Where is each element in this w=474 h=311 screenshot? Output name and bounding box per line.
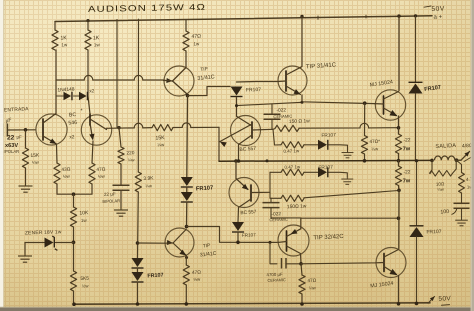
scan edge right strip <box>472 0 474 311</box>
svg-text:FR107: FR107 <box>147 272 164 279</box>
resistor 0.47 1w (row2) <box>270 171 281 173</box>
svg-text:CERAMIC: CERAMIC <box>267 277 286 283</box>
svg-text:TIP: TIP <box>200 66 208 73</box>
svg-text:CERAMIC: CERAMIC <box>269 217 288 223</box>
capacitor .022 ceramic (lower) <box>270 198 272 202</box>
resistor 1K 1w (left collector load) <box>54 22 56 31</box>
capacitor 22uF bipolar (feedback) <box>120 164 122 185</box>
ground (row2) <box>329 172 348 176</box>
svg-text:150Ω 1w: 150Ω 1w <box>287 204 307 211</box>
wire Q1 collector to VAS base (with hops) <box>56 75 164 80</box>
svg-text:22: 22 <box>7 135 15 142</box>
svg-text:¼w: ¼w <box>437 187 444 192</box>
wire Q2 collector <box>88 50 90 114</box>
svg-text:TIP: TIP <box>203 243 211 250</box>
diode FR107 (upper rail clamp) <box>414 14 417 17</box>
svg-text:BIPOLAR: BIPOLAR <box>102 198 120 204</box>
svg-text:x2: x2 <box>89 88 95 93</box>
svg-text:47Ω: 47Ω <box>307 278 316 283</box>
svg-text:½w: ½w <box>63 174 71 179</box>
svg-text:1w: 1w <box>193 41 200 46</box>
transistor BC557 (lower bias) <box>235 161 237 179</box>
svg-text:BC: BC <box>69 112 77 119</box>
ground (feedback) <box>120 191 122 207</box>
svg-text:CERAMIC: CERAMIC <box>273 114 292 120</box>
node feedback junction <box>117 126 120 129</box>
resistor 15K 1/4w (feedback) <box>152 125 173 131</box>
diode FR107 d (driver chain) <box>186 187 188 192</box>
svg-text:a +: a + <box>433 13 442 20</box>
svg-text:0.47 1w: 0.47 1w <box>284 164 301 170</box>
svg-text:50V: 50V <box>438 295 451 302</box>
scan edge left white strip <box>0 0 3 311</box>
node input bias junction <box>24 128 28 132</box>
svg-text:BC 557: BC 557 <box>240 209 257 216</box>
svg-text:0.47 1w: 0.47 1w <box>283 148 300 154</box>
resistor 3.9K 1/4w (bias chain) <box>135 172 141 192</box>
wire VAS collector to 47ohm <box>185 51 187 68</box>
svg-text:-22: -22 <box>403 169 411 175</box>
node lower driver emitter <box>185 256 188 259</box>
transistor TIP31/41C (lower driver) <box>165 228 194 257</box>
svg-text:1w: 1w <box>61 42 68 47</box>
wire Q1 collector <box>55 50 57 114</box>
svg-text:100: 100 <box>440 209 449 216</box>
diode FR107 (row2) <box>304 171 318 173</box>
svg-text:AUDISON 175W 4Ω: AUDISON 175W 4Ω <box>88 2 206 14</box>
resistor 150ohm 1w (row2 to MJ lower) <box>270 192 281 198</box>
resistor .22 7w (lower MJ) <box>398 161 400 166</box>
transistor MJ15024 (upper output) <box>397 14 400 17</box>
node zener junction <box>73 227 75 271</box>
scan edge bottom strip <box>0 308 474 311</box>
ground (zener) <box>24 243 26 254</box>
resistor 47ohm 1w (VAS collector load) <box>185 20 187 31</box>
svg-text:1w: 1w <box>94 42 101 47</box>
diode FR107 c (driver chain) <box>181 177 193 186</box>
diode 1N4148 b <box>74 95 80 97</box>
wire feedback to output line <box>173 123 219 128</box>
svg-text:47Ω: 47Ω <box>96 167 106 173</box>
svg-text:150 Ω 1w: 150 Ω 1w <box>289 118 310 125</box>
wire bias chain down <box>137 192 140 258</box>
capacitor 22uF 63V bipolar (input) <box>3 124 7 137</box>
diode FR107 (VAS emitter to bias transistor) <box>231 87 243 96</box>
svg-text:¼w: ¼w <box>157 142 165 147</box>
node VAS emitter <box>186 94 190 98</box>
wire driver emitter to MJ base <box>302 95 375 104</box>
node TIP32 collector junction <box>299 262 303 266</box>
wire output line (SALIDA net) <box>219 159 432 162</box>
svg-text:BC 557: BC 557 <box>239 146 256 153</box>
wire bias chain to -50V rail <box>137 282 139 304</box>
node MJ upper emitter <box>398 116 400 128</box>
transistor BC546 Q1 (left of diff pair) <box>36 114 67 145</box>
resistor 10K 1w (tail) <box>73 194 75 207</box>
svg-text:FR107: FR107 <box>318 164 333 171</box>
svg-text:7w: 7w <box>403 146 411 152</box>
ground (row1) <box>329 145 348 150</box>
transistor TIP31/41C (VAS upper driver) <box>164 66 194 96</box>
svg-text:FR107: FR107 <box>246 87 261 94</box>
svg-text:FR107: FR107 <box>321 132 336 139</box>
row2 stub <box>269 172 271 192</box>
wire MJ lower emitter to -50V rail <box>398 276 400 304</box>
wire rail drop A (to feedback node) <box>116 20 118 128</box>
svg-text:5K5: 5K5 <box>80 276 89 282</box>
resistor 5K5 1/2w (tail to -50V) <box>70 271 76 291</box>
resistor 4.7 1w (zobel) <box>457 160 462 172</box>
wire driver base from BC557 top area <box>237 81 279 84</box>
resistor 0.47 1w (row1) <box>281 142 304 148</box>
transistor TIP31/41C (upper output driver) <box>278 66 307 95</box>
svg-text:x2: x2 <box>69 134 75 140</box>
resistor 15K 1/4w (input bias to ground) <box>25 130 27 148</box>
svg-text:15K: 15K <box>30 153 40 159</box>
diode FR107 (below lower BC557) <box>232 222 244 231</box>
svg-text:SALIDA: SALIDA <box>435 143 456 150</box>
wire +50V top rail <box>55 16 432 22</box>
svg-text:15K: 15K <box>155 135 165 142</box>
node output arrow <box>461 152 470 161</box>
wire driver chain to lower TIP collector <box>186 202 188 228</box>
svg-text:x63V: x63V <box>5 143 18 149</box>
transistor BC557 (upper bias) <box>231 116 261 146</box>
resistor 43ohm 1/2w (Q1 emitter) <box>56 145 59 163</box>
resistor .22 7w (upper MJ emitter) <box>398 128 400 134</box>
diode FR107 (lower rail clamp) <box>416 161 418 226</box>
svg-text:7w: 7w <box>403 178 411 184</box>
svg-text:47Ω*: 47Ω* <box>369 139 380 144</box>
wire -50V bottom rail <box>74 303 430 304</box>
resistor 47ohm 1/4w (lower mid) <box>301 264 302 275</box>
svg-text:FR107: FR107 <box>196 185 214 192</box>
svg-text:43Ω: 43Ω <box>61 167 71 173</box>
svg-text:22 µF: 22 µF <box>104 191 116 197</box>
wire VAS emitter step to FR107 <box>188 87 231 96</box>
svg-text:½w: ½w <box>98 174 106 179</box>
svg-text:¼w: ¼w <box>32 160 40 165</box>
capacitor 100n (zobel) <box>461 193 463 203</box>
wire to MJ lower collector <box>398 190 400 248</box>
transistor TIP32/42C (lower driver) <box>278 225 309 256</box>
resistor 220 1/4w (feedback shunt) <box>119 128 121 147</box>
wire FR107 to BC557 upper <box>236 98 238 117</box>
svg-text:FR107: FR107 <box>242 232 256 237</box>
svg-text:50V: 50V <box>431 6 445 13</box>
resistor 47ohm 1/2w (Q2 emitter) <box>92 141 93 163</box>
transistor BC546 Q2 (right of diff pair) <box>81 115 111 145</box>
svg-text:220: 220 <box>126 150 135 156</box>
svg-text:3.9K: 3.9K <box>143 175 154 182</box>
resistor 47ohm 1/2w (lower driver emitter) <box>185 256 187 266</box>
wire feedback line (Q2 base, with hops) <box>107 123 153 128</box>
transistor MJ15024 (lower output) <box>376 248 406 278</box>
resistor 10ohm 1/4w (across coil) <box>431 160 433 173</box>
ground (zobel) <box>461 209 463 218</box>
svg-text:1K: 1K <box>93 35 100 41</box>
wire lower bias line to TIP32 base <box>187 227 279 243</box>
wire TIP32 emitter to output .22 node <box>301 218 399 229</box>
svg-text:10K: 10K <box>79 210 89 216</box>
row1 stub down <box>273 129 275 145</box>
svg-text:*: * <box>81 109 83 115</box>
wire emitters join / tail node <box>57 184 92 194</box>
svg-text:546: 546 <box>68 120 77 127</box>
diode FR107 (row1) <box>304 144 318 146</box>
wire rail to driver collector <box>300 15 303 18</box>
capacitor 4700pF ceramic <box>270 242 277 263</box>
inductor output coil <box>435 156 455 160</box>
wire rail drop B (bias chain) <box>137 19 139 172</box>
wire bias node line (FR107 to driver emitter node) <box>237 102 303 105</box>
svg-text:47Ω: 47Ω <box>192 270 202 276</box>
resistor 47ohm* 1/4w (driver emitter) <box>364 103 366 135</box>
svg-text:1K: 1K <box>60 35 67 41</box>
capacitor .022 ceramic (upper) <box>271 105 273 114</box>
svg-text:-22: -22 <box>403 137 411 143</box>
diode FR107 b (bias chain) <box>137 268 139 272</box>
svg-text:FR107: FR107 <box>426 229 441 236</box>
rail tick marks <box>317 16 319 19</box>
ground (input bias) <box>19 183 33 192</box>
resistor 1K 1w (right collector load) <box>86 19 89 22</box>
svg-text:½w: ½w <box>193 277 201 282</box>
diode FR107 a (bias chain) <box>132 258 144 267</box>
wire VAS emitter chain down <box>186 96 189 177</box>
svg-text:¼w: ¼w <box>309 285 317 290</box>
svg-text:47Ω: 47Ω <box>191 33 201 40</box>
node lower driver base tap <box>136 241 140 245</box>
svg-text:¼w: ¼w <box>371 146 379 151</box>
svg-text:µF: µF <box>17 135 23 140</box>
